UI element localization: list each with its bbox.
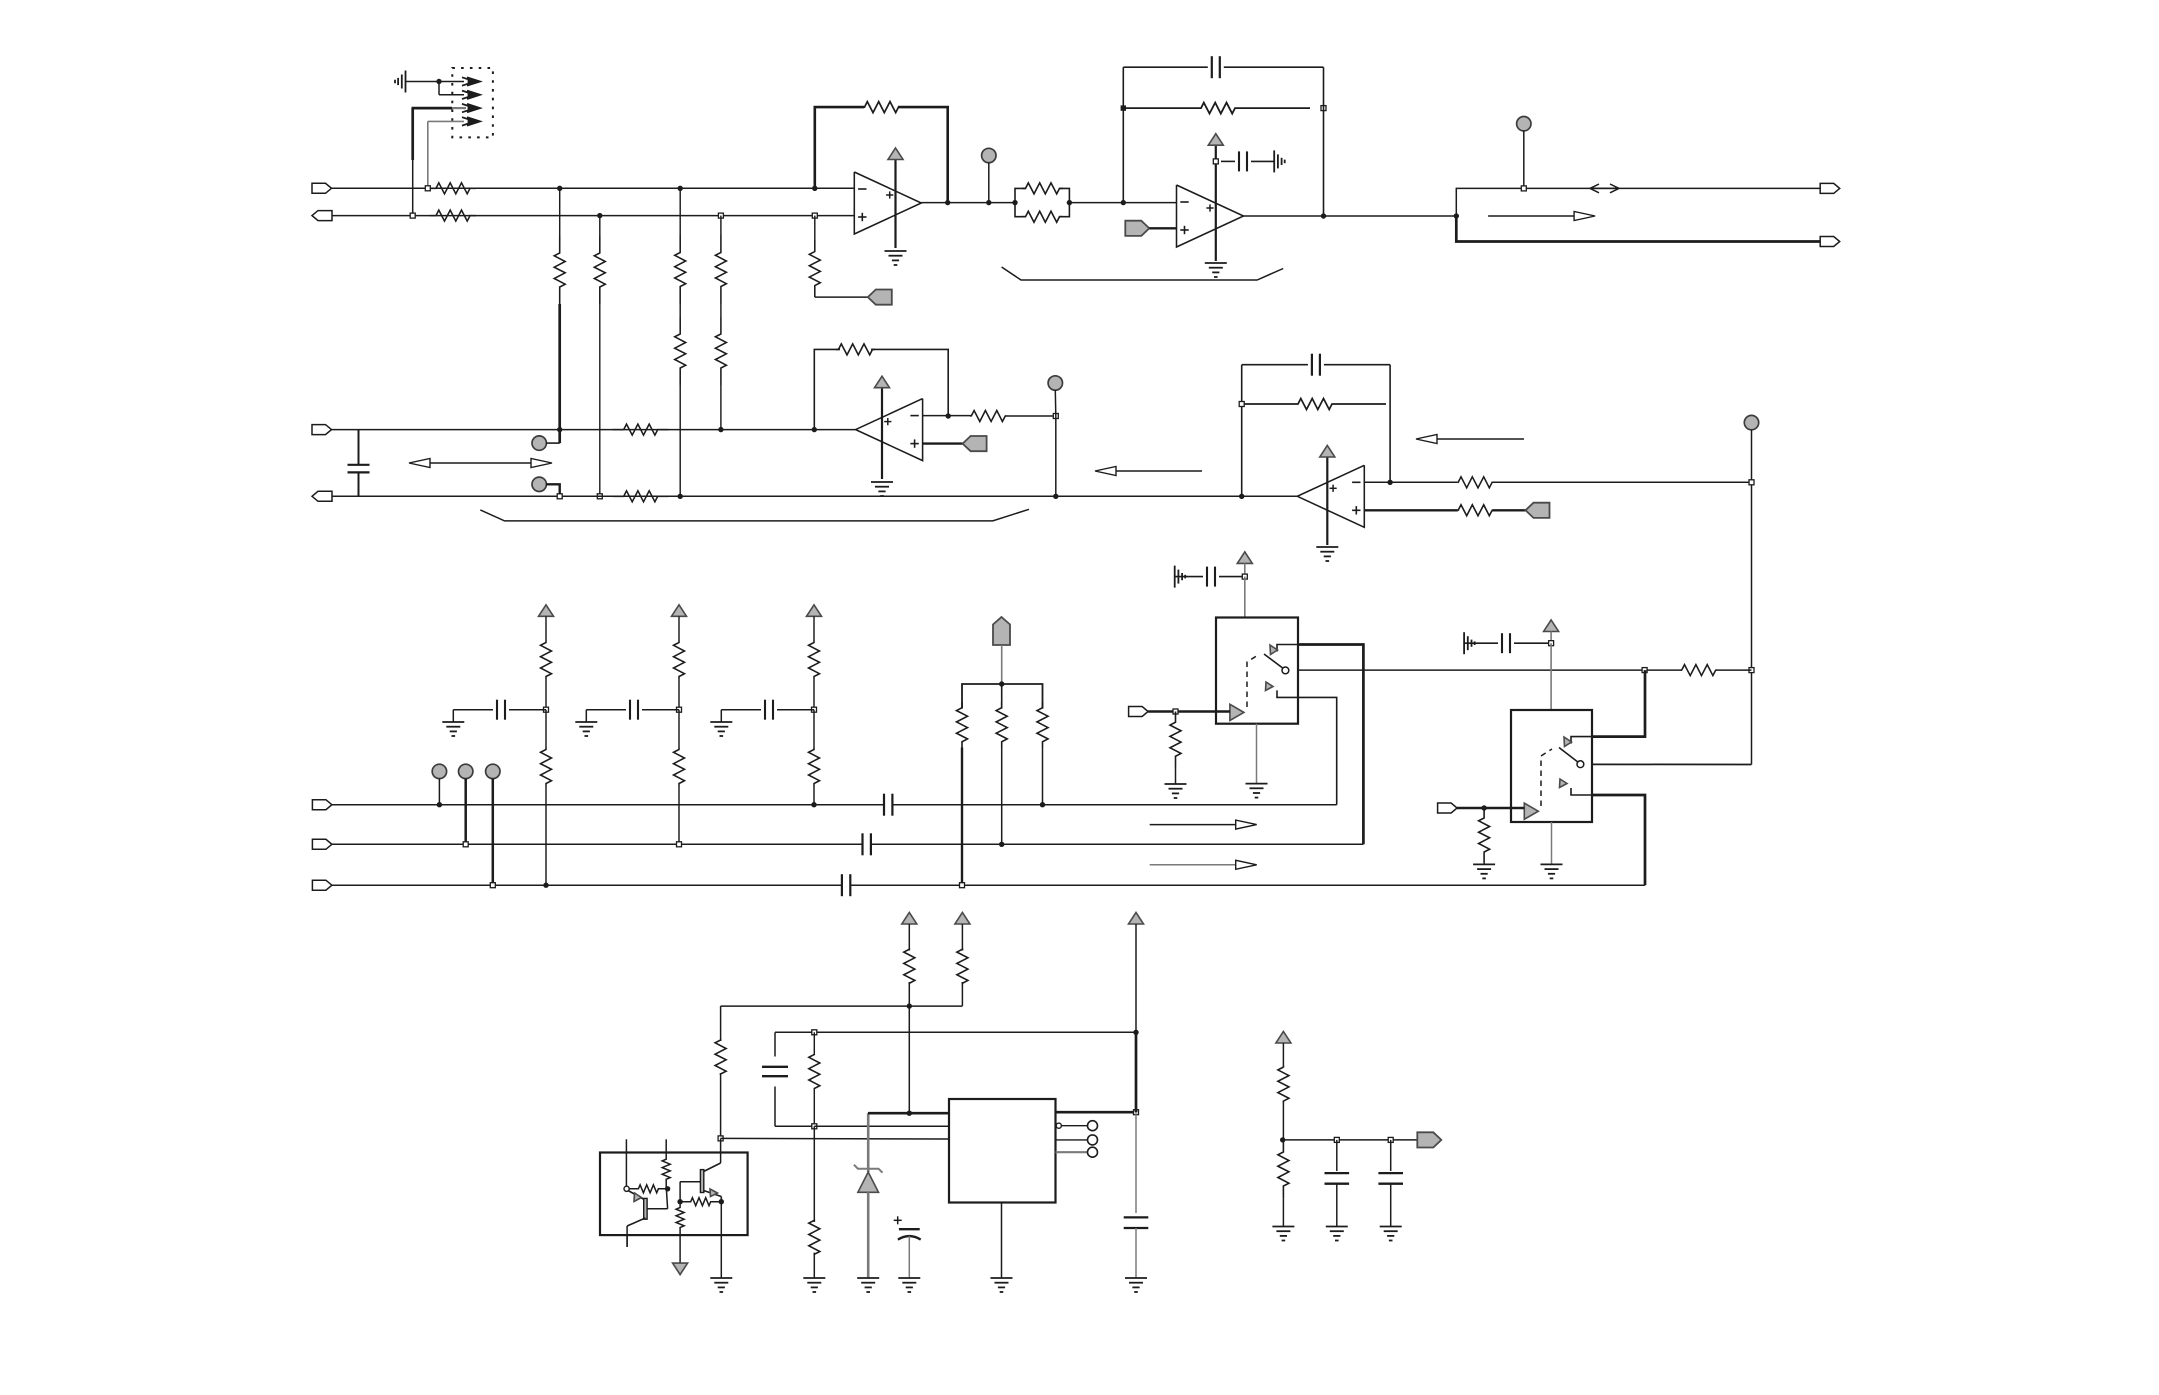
wire zener to regulator pin1 bold [868,1112,949,1115]
power arrow SW2 supply [1544,620,1559,643]
op-amp U4 [856,399,923,461]
shield arrow 3 [462,104,480,112]
resistor termination B [996,702,1007,844]
capacitor RC network 2 [586,700,679,720]
resistor U4 inverting to bus [971,411,1056,422]
lower output branch wire bold [1456,216,1820,242]
SW2 control connector [1438,803,1525,813]
regulator bottom stem [1001,1203,1003,1279]
junction line1 x680 [678,186,683,191]
junction line3 x721 [718,427,723,432]
resistor dropper line2-to-line4 [594,216,605,497]
junction arrow3 on line2 [410,213,415,218]
wire SW1 lower throw to line5 [1298,697,1337,804]
power arrow U4 [875,376,890,479]
resistor R line2 input [430,210,476,221]
tag U3 non-inverting [1526,503,1550,518]
ground U1 [885,251,907,265]
analog switch SW1 box [1216,618,1298,724]
left arrow annotation ch2 [1095,467,1202,476]
wire SW2 upper throw to junction [1592,670,1645,737]
wire to regulator pin2 [814,1125,949,1127]
junction timing resistor top [812,1030,817,1035]
resistor upper RC network 2 [674,616,685,709]
feedback capacitor row U3 [1242,354,1390,483]
decoupling capacitor U2 [1221,151,1274,171]
regulator right pin bold [1056,1111,1137,1114]
wire line7 [332,884,1645,886]
SW1 control connector [1129,707,1230,717]
SW2 upper throw contact [1564,737,1592,747]
shield arrow 1 [439,77,480,85]
resistor dropper line2-to-line3 lower [715,304,726,430]
ground RC network 3 [710,710,732,736]
shield arrow 4 [462,117,480,125]
signal arrow annotation mid 1 [1150,820,1257,829]
resistor R line1 input [430,183,476,194]
junction Q2 emitter [719,1199,724,1204]
decoupling capacitor SW1 [1175,566,1245,588]
dotted shield box [452,68,493,137]
regulator NC pin 2 [1056,1135,1098,1145]
junction SW2 control [1481,805,1486,810]
wire SW1 pole to resistor [1298,669,1682,671]
connector IN6 (line6) [312,839,332,849]
resistor dropper line1-to-line4 lower [675,304,686,496]
wire line5 [332,804,1337,806]
capacitor across input pair [348,430,370,497]
junction line2 x600 [597,213,602,218]
resistor Q2 emitter [680,1198,721,1206]
tag input U2 non-inverting [1125,221,1176,236]
junction RC network 2 to line [677,842,682,847]
power arrow PSU output [1129,913,1144,1033]
wire line2 [332,215,854,217]
wire PSU output vertical bold [1135,1032,1138,1213]
cable mark double arrow [1590,184,1619,193]
junction line2 x721 [718,213,723,218]
ground U4 [871,482,893,496]
capacitor series line7 [842,874,850,896]
transistor pair box [600,1153,748,1236]
ground reference cap 1 [1326,1227,1348,1241]
wire SW2 lower throw to line7 [1592,795,1645,885]
parallel resistor pair R|R [1012,183,1072,222]
decoupling capacitor SW2 [1464,632,1551,654]
ground Q2 emitter [710,1278,732,1292]
junction PSU node A [907,1003,912,1008]
junction RC network 2 [677,707,682,712]
feedback resistor row U2 [1121,103,1326,114]
feedback loop wire U4 [814,344,948,430]
junction U4 fb [946,413,951,418]
connector IN7 (line7) [312,880,332,890]
wire U4 inverting input [923,415,972,417]
tag termination pull-up [993,617,1010,684]
wire line6 [332,843,1364,845]
junction bus U3 resistor [1749,480,1754,485]
connector IN4 (line4) [312,491,332,501]
wire B timing node [775,1031,1136,1033]
ground U2 [1205,263,1227,277]
resistor SW2 control pulldown [1479,808,1490,864]
resistor upper RC network 1 [541,616,552,709]
junction U3 fb [1387,480,1392,485]
junction reference node [1280,1137,1285,1142]
wire to arrow 4 [428,121,464,188]
testpoint TP1 [532,436,560,450]
connector IN5 (line5) [312,800,332,810]
stub above box 1 [625,1139,627,1152]
testpoint TP7 line5 [432,764,446,807]
junction line4 x1056 [1053,494,1058,499]
signal ground (chassis) top-left [395,71,439,93]
connector OUT1 [1820,183,1840,193]
capacitor RC network 1 [453,700,546,720]
bidirectional arrow annotation [409,459,552,468]
power arrow RC network 2 [672,605,687,617]
power arrow PSU right [955,913,970,951]
ground regulator [991,1278,1013,1292]
ground SW1 pulldown [1165,784,1187,798]
ground SW2 box [1541,822,1563,878]
resistor PSU left [904,949,915,1113]
junction termination bar [999,681,1004,686]
ground reference cap 2 [1380,1227,1402,1241]
signal ground decoupling U2 [1274,150,1285,172]
capacitor series line6 [863,833,871,855]
junction output bus split [1454,213,1459,218]
wire to regulator pin3 [721,1137,949,1140]
ground timing [803,1278,825,1292]
testpoint TP6 right bus [1744,415,1758,764]
junction line4 x600 [597,494,602,499]
wire line3 [332,429,856,431]
junction termination A line7 [960,883,965,888]
analog switch SW2 box [1511,710,1592,822]
capacitor PSU output [1124,1217,1149,1278]
junction pole wire to SW2 upper [1642,668,1647,673]
capacitor series line5 [884,794,892,816]
resistor termination A [957,702,968,885]
junction PSU output node [1133,1030,1138,1035]
brace under ch2 stage [480,509,1029,521]
shield arrow 2 [462,91,480,99]
junction RC network 1 [544,707,549,712]
resistor reference lower [1278,1140,1289,1227]
resistor upper RC network 3 [809,616,820,709]
op-amp U2 [1177,185,1244,247]
ground SW1 box [1246,724,1268,798]
op-amp U3 [1297,465,1364,527]
signal arrow annotation mid 2 [1150,860,1257,869]
resistor PSU right [957,949,968,1006]
ground SW2 pulldown [1473,864,1495,878]
junction termination C line5 [1040,802,1045,807]
junction SW2 supply [1549,641,1554,710]
SW1 upper throw contact [1270,645,1298,655]
ground RC network 1 [442,710,464,736]
junction line4 x680 [678,494,683,499]
junction U1 feedback on output [945,200,950,205]
junction line2 x815 [812,213,817,218]
junction reference cap 2 [1388,1137,1393,1142]
junction regulator output [1134,1110,1139,1115]
SW1 pole [1264,654,1289,674]
testpoint TP8 line6 [459,764,473,847]
ground reference lower [1272,1227,1294,1241]
resistor Q2 base pulldown [676,1202,684,1263]
feedback resistor row U3 [1239,399,1386,410]
resistor lower RC network 1 [541,710,552,886]
voltage regulator IC box [949,1099,1056,1203]
wire U3 inverting input [1364,481,1458,483]
capacitor RC network 3 [721,700,814,720]
resistor lower RC network 2 [674,710,685,845]
resistor reference upper [1278,1067,1289,1140]
testpoint TP9 line7 [486,764,500,888]
resistor U3 non-inverting [1458,505,1526,516]
ground RC network 2 [575,710,597,736]
tag U4 non-inverting [923,436,987,451]
power arrow SW1 supply [1237,552,1252,577]
SW1 control buffer [1230,655,1258,721]
junction U4 feedback on line3 [812,427,817,432]
wire U3 non-inverting bold [1364,509,1458,511]
resistor dropper line2-to-line3 upper [715,216,726,304]
power arrow RC network 3 [807,605,822,617]
junction RC network 3 to line [811,802,816,807]
junction SW1 control [1173,709,1178,714]
power arrow PSU left [902,913,917,951]
regulator NC pin 1 [1056,1121,1097,1131]
resistor switch bus [1682,665,1752,676]
ground zener [857,1278,879,1292]
wire SW2 pole [1592,763,1752,765]
signal flow arrow output [1488,212,1595,221]
junction left leg [718,1136,723,1141]
junction U3 feedback on line4 [1239,494,1244,499]
wire line1 [332,187,855,189]
junction timing mid [812,1124,817,1129]
resistor U3 inverting to bus [1458,477,1752,488]
junction bus switch resistor [1749,668,1754,673]
resistor dropper line1-to-line4 upper [675,188,686,304]
power arrow reference [1276,1032,1291,1068]
resistor dropper line1-to-line3 [554,188,565,443]
upper output branch wire [1456,188,1820,216]
testpoint TP3 output [1517,117,1531,191]
wire left leg down [720,1006,722,1041]
junction RC network 3 [812,707,817,712]
resistor Q1 base [629,1185,667,1193]
output wire U1 [921,202,1015,204]
wire Q2 emitter to ground [720,1202,722,1278]
series resistor line3 [613,424,669,435]
tag reference output [1417,1132,1441,1147]
ground U3 [1316,547,1338,561]
wire PSU node A [721,1005,963,1007]
resistor termination C [1037,702,1048,805]
junction line1 x560 [557,186,562,191]
SW2 lower throw contact [1560,779,1593,795]
capacitor reference 1 [1325,1140,1350,1227]
junction RC network 1 to line [543,883,548,888]
wire bold to arrow 3 [412,108,467,216]
resistor lower RC network 3 [809,710,820,805]
wire ground to arrow 2 [439,82,464,95]
testpoint TP4 line4 [532,477,560,496]
feedback left vertical U3 [1241,365,1243,497]
junction arrow4 on line1 [425,186,430,191]
junction dot ground net [436,79,441,84]
regulator NC pin 3 [1056,1147,1098,1157]
resistor bias to tag [809,216,868,298]
SW2 control buffer [1524,749,1552,819]
power arrow U3 [1320,446,1335,546]
resistor internal bias [647,1153,670,1209]
resistor timing [809,1032,820,1126]
wire SW1 upper throw to line6 [1298,645,1363,845]
termination top bar [962,684,1043,709]
feedback junction U1 inverting [812,186,817,191]
connector OUT2 [1820,237,1840,247]
wire bus corner to SW2 pole [1592,764,1752,766]
junction line4 x560 [557,494,562,499]
junction resistor to TP bus [1053,414,1058,419]
junction pin1 [907,1111,912,1116]
ground electrolytic [898,1278,920,1292]
resistor left leg [715,1040,726,1138]
connector IN2 (line1 -) [312,211,332,221]
junction U2 feedback takeoff [1121,200,1126,205]
output wire U2 [1243,215,1456,217]
junction termination B line6 [999,842,1004,847]
SW1 lower throw contact [1266,682,1299,697]
stub below box [626,1235,628,1247]
resistor SW1 control pulldown [1170,712,1181,785]
feedback capacitor row U2 [1123,56,1323,216]
ground PSU output cap [1125,1278,1147,1292]
op-amp U1 [854,172,921,234]
testpoint TP5 ch2 [1048,376,1062,497]
series resistor line4 [613,491,669,502]
connector IN1 (line1 +) [312,183,332,193]
brace under U1-U2 stage [1002,267,1284,280]
junction SW1 supply [1242,574,1247,617]
power arrow RC network 1 [539,605,554,617]
power arrow U2 [1208,134,1223,261]
junction line3 x560 [557,427,562,432]
junction power decoupling U2 [1213,159,1218,164]
wire reference node [1283,1139,1418,1141]
junction Q2 base [677,1199,682,1204]
testpoint TP2 on U1 output [982,148,996,205]
electrolytic capacitor PSU [894,1216,921,1278]
tag DGND left-pointing [868,290,892,305]
SW2 pole [1559,748,1584,768]
capacitor reference 2 [1378,1140,1403,1227]
feedback left vertical U2 [1122,67,1124,202]
junction U2 fb on output [1321,213,1326,218]
resistor lower timing [809,1126,820,1278]
connector IN3 (line3) [312,425,332,435]
stub above box 2 [665,1139,667,1152]
transistor Q1 [624,1153,647,1247]
power arrow U1 [888,148,903,248]
zener diode [854,1113,883,1278]
wire to U2 inverting input [1069,202,1176,204]
wire line4 [332,495,1297,497]
left arrow annotation above U3 [1416,435,1524,444]
capacitor timing [762,1032,814,1126]
junction reference cap 1 [1334,1137,1339,1142]
negative supply arrow [673,1263,688,1275]
feedback loop wire U1 [815,102,948,203]
transistor Q2 [680,1138,721,1201]
